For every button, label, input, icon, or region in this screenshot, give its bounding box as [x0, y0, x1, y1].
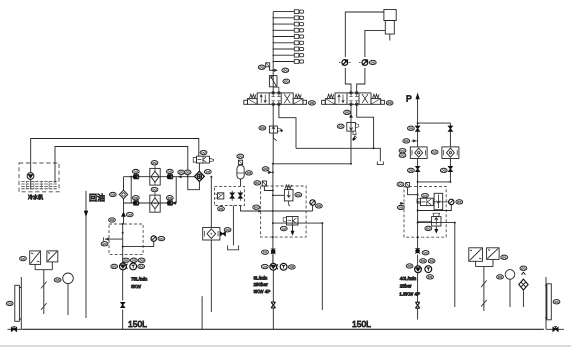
cylinder: [384, 10, 396, 21]
junction dot: [187, 175, 189, 177]
level gauge LG2: [547, 284, 551, 320]
balloon T2: [497, 275, 504, 279]
arrow port left: [400, 202, 405, 204]
svg-text:冷水机: 冷水机: [28, 194, 43, 201]
balloon SV2: [280, 226, 287, 230]
level relay S3: [469, 248, 483, 261]
balloon M2: [288, 265, 295, 269]
balloons FP1: [399, 149, 406, 153]
RD1 drain: [273, 133, 276, 141]
cooler / heat exchanger F1: [195, 171, 205, 181]
reducing valve RD1: [269, 126, 277, 133]
gauge G3: [449, 199, 454, 204]
chiller pump: [31, 163, 55, 190]
balloon accumulator top: [237, 154, 244, 158]
left tank wall: [20, 277, 22, 329]
shutoff bowtie suction: [121, 302, 125, 307]
return flow arrowhead: [84, 211, 88, 218]
slash marks: [41, 282, 47, 289]
junction dot: [130, 176, 132, 178]
balloon V2: [386, 101, 393, 105]
check diamond D1: [119, 190, 127, 199]
pilot cartridge: [434, 193, 443, 209]
gauge port square: [406, 183, 410, 188]
wire unload drain to return: [273, 222, 322, 224]
gauge port tee: [105, 238, 123, 240]
wire V2 T drop: [357, 104, 374, 148]
svg-text:P: P: [406, 94, 412, 104]
tank top line (both reservoirs): [23, 328, 544, 330]
wire SV-C to cooler: [198, 163, 200, 172]
pump2 manifold dashed box: [261, 186, 307, 237]
balloon M3 below: [427, 275, 434, 279]
wire through box: [122, 224, 124, 263]
motor M2: [280, 263, 287, 270]
svg-text:1.5KW 4P: 1.5KW 4P: [399, 291, 420, 296]
bowtie BVP3: [417, 159, 419, 167]
filter FL1: [150, 168, 160, 185]
relief valve RV2: [273, 194, 285, 196]
svg-text:3KW: 3KW: [131, 284, 142, 289]
branch 1: [273, 11, 294, 13]
balloon FC1: [283, 79, 290, 83]
balloon F1 left: [178, 170, 185, 174]
svg-text:40L/min: 40L/min: [400, 276, 417, 281]
balloon RV1: [337, 124, 344, 128]
drain valve left: [8, 328, 23, 330]
wire V2 A line: [345, 68, 351, 93]
balloon FL2: [151, 187, 158, 191]
strainer pump2: [271, 302, 275, 308]
wire check to pump: [272, 255, 274, 263]
pump P2: [270, 263, 277, 270]
wire pump3 suction: [417, 273, 419, 320]
throttle check TC1: [339, 60, 351, 66]
drain valve right: [546, 328, 564, 330]
wire return riser right: [454, 223, 456, 307]
svg-text:150L: 150L: [352, 319, 371, 329]
balloon T1: [54, 278, 61, 282]
branch 6: [273, 42, 294, 44]
wire V2 P drop: [350, 104, 352, 164]
thermometer T1: [63, 273, 74, 284]
gas valve square: [238, 160, 242, 164]
branch 7: [273, 48, 294, 50]
svg-text:回油: 回油: [89, 192, 105, 202]
wire manifold riser: [272, 12, 274, 93]
branch 8: [273, 54, 294, 56]
level relay S1: [30, 251, 41, 265]
filter FL2: [150, 195, 160, 212]
balloon BVP4: [440, 168, 447, 172]
svg-text:25bar: 25bar: [400, 284, 412, 289]
balloon RV3: [425, 226, 432, 230]
wire cooler return riser: [210, 177, 212, 312]
coupling2: [277, 264, 278, 269]
balloon M1 port: [254, 181, 261, 185]
wire pump1 suction: [122, 270, 124, 330]
balloon check: [126, 212, 133, 216]
strainer pump3: [415, 302, 419, 308]
balloon S4: [501, 255, 508, 259]
filter FP2: [442, 147, 459, 159]
balloon pump inlet: [109, 218, 116, 222]
pilot valve: [217, 193, 223, 199]
balloon SV-C: [200, 150, 207, 154]
tank symbol pilot drain: [228, 245, 239, 249]
motor M3: [425, 266, 432, 273]
balloon CV2: [262, 250, 269, 254]
balloon G1: [158, 236, 165, 240]
wire V1 T drop: [279, 104, 296, 148]
balloon P1: [111, 264, 118, 268]
wire supply riser: [123, 177, 125, 224]
solenoid valve SV-C: [197, 156, 210, 163]
solenoid valve SV3: [418, 201, 421, 203]
bowtie FR bypass: [220, 232, 225, 236]
balloon BV-A: [132, 169, 139, 173]
balloon BV-D: [166, 196, 173, 200]
check valve CV3: [415, 249, 420, 253]
wire upper branch: [124, 176, 196, 178]
capillary bracket right: [476, 259, 493, 311]
SV2 drain bold arrow: [292, 225, 294, 233]
balloon BVP3: [408, 168, 415, 172]
wire chiller return: [55, 147, 188, 177]
wire T header: [296, 148, 380, 161]
balloon F1 right: [204, 170, 211, 174]
branch 2: [273, 17, 294, 19]
balloon BV-C: [132, 196, 139, 200]
balloon FR: [224, 228, 231, 232]
balloon P2: [261, 264, 268, 268]
wire U-loop below cooler: [188, 176, 200, 189]
wire to gauge G1: [123, 241, 154, 246]
wire return oil line: [85, 191, 87, 318]
pilot manifold dashed box: [215, 186, 245, 205]
balloon pilot block: [218, 207, 225, 211]
svg-text:3KW 4P: 3KW 4P: [254, 289, 271, 294]
branch 5: [273, 36, 294, 38]
accumulator capsule: [237, 165, 244, 179]
svg-text:75L/min: 75L/min: [131, 277, 148, 282]
RV3 drain bold: [435, 226, 437, 231]
balloons pump1 row: [123, 258, 130, 262]
pump3 manifold dashed box: [404, 186, 446, 237]
wire V2 B line: [357, 68, 365, 93]
balloon gauge port: [101, 242, 108, 246]
wire drain to return: [418, 222, 455, 224]
pump1 dashed box: [109, 224, 143, 254]
throttle check TC2: [359, 60, 371, 66]
coupling: [126, 264, 127, 269]
wire V1 P drop: [272, 104, 274, 126]
balloon RV2: [295, 193, 302, 197]
svg-text:150L: 150L: [128, 319, 147, 329]
wire pilot to gauge line: [241, 206, 273, 212]
temp relay S2: [47, 251, 58, 262]
chiller coil hatch: [21, 182, 57, 189]
return filter FR: [203, 228, 220, 241]
check valve CV2: [271, 250, 276, 254]
arrow + balloon on gauge line: [259, 210, 262, 212]
wire pump box drain to tank: [201, 296, 203, 329]
right tank wall: [545, 277, 547, 329]
wire port into box: [408, 187, 418, 195]
air breather: [520, 266, 527, 270]
balloons pump3 row: [420, 259, 427, 263]
thermometer T2: [505, 270, 515, 280]
tank symbol T header: [377, 161, 383, 164]
balloon accumulator: [246, 171, 253, 175]
flow arrow lower: [172, 202, 176, 204]
branch 4: [273, 29, 294, 31]
ball valve BV-D: [167, 201, 173, 205]
wire TC2 up: [365, 30, 385, 57]
cartridge CK2: [238, 193, 242, 198]
cartridge CK1: [230, 193, 234, 198]
wire to pump3: [417, 255, 419, 266]
gauge tee arrow on P2: [268, 171, 273, 173]
flow arrow upper + balloon: [179, 176, 182, 178]
wire return riser to tank: [321, 223, 323, 310]
P arrow: [417, 99, 419, 123]
pilot stub V1: [273, 87, 279, 93]
gauge tee arrow: [411, 140, 417, 142]
wire right vertical: [175, 177, 177, 203]
bottom page border: [0, 345, 571, 347]
ball valve BV-B: [167, 175, 173, 179]
balloon P check: [344, 110, 351, 114]
balloon BVP1: [408, 126, 415, 130]
bowtie BVP2: [449, 123, 451, 126]
balloon M1: [138, 264, 145, 268]
balloon TC2: [369, 60, 376, 64]
wire main vertical: [417, 182, 419, 249]
wire P2 to V2 header: [273, 163, 351, 165]
branch 9: [273, 61, 294, 63]
balloon G3: [456, 200, 463, 204]
balloon P3: [406, 264, 413, 268]
check arrow on suction riser: [121, 212, 125, 217]
wire V1 P continue: [272, 133, 274, 164]
balloon D1: [109, 192, 116, 196]
gauge tee on riser: [272, 69, 274, 71]
ball valve BV-A: [133, 175, 139, 179]
balloon CV3: [422, 251, 429, 255]
svg-text:250bar: 250bar: [254, 282, 269, 287]
balloon G2: [316, 204, 323, 208]
wire G2 line: [273, 205, 313, 211]
relief RV3: [418, 220, 432, 222]
RV1 drain: [353, 131, 357, 140]
wire accumulator drop: [240, 179, 242, 186]
svg-text:8L/min: 8L/min: [254, 275, 268, 280]
motor M1: [130, 263, 137, 270]
temp relay S4: [487, 248, 500, 260]
balloon RD1: [259, 126, 266, 130]
wire to gauge G3: [433, 201, 448, 203]
pump P1: [120, 263, 127, 270]
flow control FC1: [269, 76, 277, 87]
level gauge LG1: [15, 285, 20, 321]
wire P branch header: [418, 122, 451, 124]
capillary bracket: [35, 262, 52, 314]
ball valve BV-C: [133, 201, 139, 205]
pump P3: [415, 266, 422, 273]
wire M1 into box: [264, 186, 273, 191]
wire TC1 up: [345, 12, 384, 57]
balloon BV-B: [166, 169, 173, 173]
bleed arrow right: [273, 69, 277, 71]
RV2 drain: [289, 201, 290, 206]
wire join filters: [418, 181, 451, 183]
balloon V1: [309, 101, 316, 105]
wire pilot drain: [232, 206, 234, 246]
wire P2 main vertical: [272, 164, 274, 263]
branch 3: [273, 23, 294, 25]
balloon FP2: [431, 150, 438, 154]
valve V2 body: [322, 92, 385, 106]
wire chiller supply (top): [31, 139, 199, 164]
relief RV1: [347, 123, 356, 132]
gauge G1: [151, 236, 156, 241]
balloon FL1: [151, 161, 158, 165]
balloon S1: [20, 256, 27, 260]
wire pump2 suction: [272, 270, 274, 329]
chiller dashed box: [19, 163, 59, 192]
filter FP1: [410, 147, 427, 159]
wire lower branch: [124, 177, 177, 203]
bowtie BVP4: [449, 159, 451, 167]
gauge G2: [310, 200, 315, 205]
gauge port square M1: [262, 181, 266, 186]
solenoid unloader SV2: [287, 217, 299, 226]
bowtie BVP1: [417, 123, 419, 126]
balloon LG2: [553, 300, 560, 304]
balloon SV3: [422, 193, 429, 197]
balloon LG1: [6, 301, 13, 305]
balloon gauge tee: [258, 65, 265, 69]
valve V1 body: [244, 92, 307, 106]
